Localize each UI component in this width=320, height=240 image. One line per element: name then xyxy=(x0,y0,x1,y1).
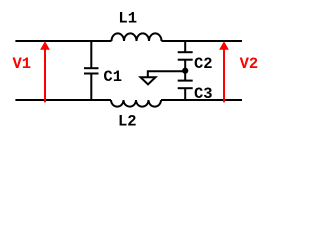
wire top rail left segment xyxy=(15,40,111,42)
V2 arrow xyxy=(223,48,225,102)
capacitor C3 xyxy=(178,80,193,82)
wire between C2 and C3 xyxy=(184,60,186,81)
capacitor C1 xyxy=(84,67,99,69)
wire right branch lower xyxy=(184,88,186,100)
wire bottom rail right segment xyxy=(161,99,242,101)
wire C1 branch lower xyxy=(90,74,92,101)
svg-text:C1: C1 xyxy=(103,68,122,86)
wire bottom rail left segment xyxy=(15,99,111,101)
capacitor C2 xyxy=(178,51,193,53)
wire right branch upper xyxy=(184,41,186,52)
ground xyxy=(141,77,156,84)
wire ground connection xyxy=(148,71,185,76)
svg-text:V2: V2 xyxy=(240,55,259,73)
wire top rail right segment xyxy=(162,40,243,42)
inductor L2 xyxy=(111,100,161,107)
svg-text:V1: V1 xyxy=(13,55,32,73)
svg-text:C3: C3 xyxy=(194,85,213,103)
svg-text:L1: L1 xyxy=(118,10,137,28)
inductor L1 xyxy=(112,33,162,41)
V1 arrow xyxy=(44,48,46,102)
svg-text:L2: L2 xyxy=(118,113,137,131)
wire C1 branch upper xyxy=(90,41,92,68)
node junction dot xyxy=(182,68,188,74)
svg-text:C2: C2 xyxy=(194,55,213,73)
